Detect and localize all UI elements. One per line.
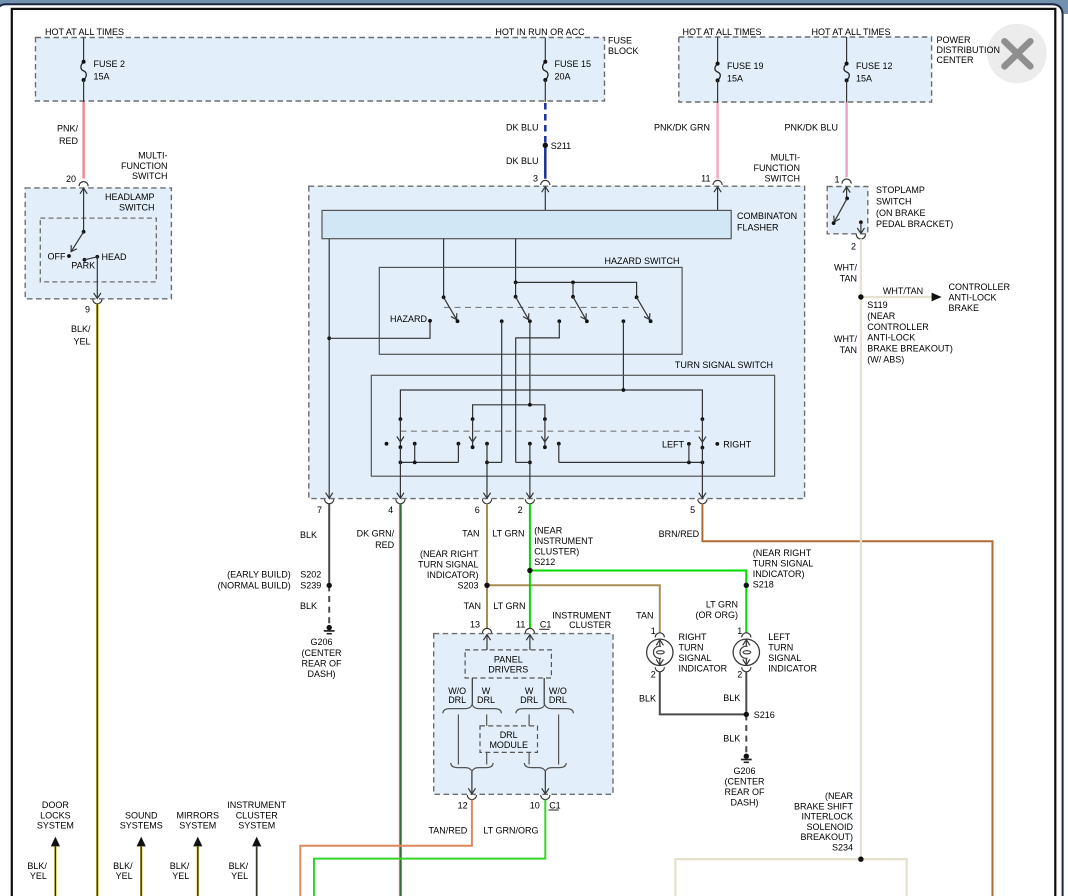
svg-text:LEFT: LEFT xyxy=(768,632,791,642)
wire WHT/TAN S234 branches xyxy=(675,859,906,896)
svg-text:DRL: DRL xyxy=(500,730,518,740)
wire PNK/RED fuse2 to headlamp switch pin 20 xyxy=(82,102,85,179)
svg-text:C1: C1 xyxy=(540,620,552,630)
svg-text:TURN SIGNAL SWITCH: TURN SIGNAL SWITCH xyxy=(675,360,773,370)
svg-text:13: 13 xyxy=(470,620,480,630)
headlamp switch inner dashed box xyxy=(40,218,156,282)
wire left bottom bus xyxy=(400,461,458,463)
connector at pin 3 xyxy=(541,180,550,185)
svg-text:LT GRN: LT GRN xyxy=(493,601,525,611)
wire fuse2 to box bottom xyxy=(83,80,85,103)
brace lower left xyxy=(451,763,494,772)
svg-text:SIGNAL: SIGNAL xyxy=(679,653,712,663)
svg-text:SWITCH: SWITCH xyxy=(119,202,155,212)
close button X xyxy=(1005,41,1031,66)
svg-text:DRL: DRL xyxy=(549,695,567,705)
wire sw2 blade down to TS bus2 xyxy=(529,321,531,405)
svg-text:DRIVERS: DRIVERS xyxy=(488,665,528,675)
wire drl module left down xyxy=(486,752,488,764)
wire W/O DRL left down xyxy=(457,714,459,764)
svg-text:SYSTEM: SYSTEM xyxy=(238,821,275,831)
hazard bus wire xyxy=(516,282,637,297)
wire TAN S203 to right indicator xyxy=(487,585,660,633)
svg-text:SYSTEM: SYSTEM xyxy=(179,821,216,831)
wire BLK dashed to ground (indicators) xyxy=(745,714,747,754)
svg-text:INDICATOR: INDICATOR xyxy=(768,663,817,673)
contact LEFT xyxy=(687,442,691,446)
svg-text:HAZARD: HAZARD xyxy=(390,314,428,324)
junction hazard feed xyxy=(327,336,331,340)
svg-text:PNK/: PNK/ xyxy=(57,123,79,133)
svg-text:PANEL: PANEL xyxy=(494,654,523,664)
contact mid2 to pin 2 xyxy=(528,442,532,446)
svg-text:FUNCTION: FUNCTION xyxy=(754,163,801,173)
contact left1 xyxy=(413,442,417,446)
svg-text:S119: S119 xyxy=(867,300,887,310)
connector at pin 11 xyxy=(713,180,722,185)
svg-text:C1: C1 xyxy=(549,800,561,810)
ground G206 (pin7) xyxy=(327,625,332,630)
svg-text:SIGNAL: SIGNAL xyxy=(768,653,801,663)
svg-text:TAN: TAN xyxy=(840,274,857,284)
connector cluster pin 11 xyxy=(525,628,534,633)
contact RIGHT xyxy=(715,442,719,446)
connector at pin 9 xyxy=(93,299,102,304)
svg-text:S234: S234 xyxy=(832,843,853,853)
wire to cluster pin 12 xyxy=(471,772,473,794)
connector at MFS pin 4 xyxy=(396,499,405,504)
fuse F12 15A xyxy=(844,64,849,81)
svg-text:2: 2 xyxy=(651,670,656,680)
hazard switch box xyxy=(379,267,682,354)
wire from contact B corner xyxy=(516,461,530,463)
svg-text:15A: 15A xyxy=(727,73,743,83)
wire pin3 into combination flasher xyxy=(544,187,546,211)
svg-text:BRAKE BREAKOUT): BRAKE BREAKOUT) xyxy=(867,344,953,354)
splice dots overlay xyxy=(543,143,548,148)
svg-text:5: 5 xyxy=(690,505,695,515)
wire panel drivers to left brace xyxy=(471,678,473,705)
svg-text:(NEAR RIGHT: (NEAR RIGHT xyxy=(753,548,812,558)
contact HAZARD xyxy=(428,319,432,323)
wire pin13 into panel drivers xyxy=(486,635,488,650)
wire W DRL right to drl module xyxy=(528,714,530,726)
wire panel drivers to right brace xyxy=(543,678,545,705)
hazard sw4 xyxy=(635,295,639,299)
svg-text:S218: S218 xyxy=(753,579,774,589)
svg-text:PNK/DK BLU: PNK/DK BLU xyxy=(784,123,838,133)
svg-text:STOPLAMP: STOPLAMP xyxy=(876,185,925,195)
wire LT GRN S212 down to cluster pin 11 xyxy=(529,571,531,629)
wire WHT/TAN S119 down to S234 xyxy=(860,297,862,859)
svg-text:S202: S202 xyxy=(300,569,321,579)
wire TAN/RED cluster pin12 down-left off page xyxy=(300,800,472,896)
svg-text:LT GRN: LT GRN xyxy=(706,600,738,610)
wire BLK left indicator to S216 xyxy=(745,672,747,715)
svg-text:LEFT: LEFT xyxy=(662,439,685,449)
svg-text:15A: 15A xyxy=(856,73,872,83)
svg-text:REAR OF: REAR OF xyxy=(724,787,765,797)
wire HEAD down to pin 9 xyxy=(96,257,98,299)
wire W/O DRL right down xyxy=(558,714,560,764)
svg-text:(NEAR: (NEAR xyxy=(825,791,854,801)
wire BRN/RED pin5 right and down xyxy=(702,504,992,896)
svg-text:MODULE: MODULE xyxy=(489,740,528,750)
svg-text:BLK: BLK xyxy=(300,530,317,540)
svg-text:3: 3 xyxy=(533,174,538,184)
svg-text:MULTI-: MULTI- xyxy=(138,151,167,161)
svg-text:1: 1 xyxy=(651,626,656,636)
stoplamp contact 2 xyxy=(859,220,863,224)
brace upper left xyxy=(443,705,502,714)
wire DK GRN/RED pin4 down off page xyxy=(398,504,400,896)
svg-text:(CENTER: (CENTER xyxy=(725,777,765,787)
stoplamp arrow and blade xyxy=(846,187,848,198)
svg-text:DK BLU: DK BLU xyxy=(506,156,539,166)
blade PARK to HEAD xyxy=(85,257,98,260)
svg-text:INDICATOR): INDICATOR) xyxy=(753,569,805,579)
arrow to controller xyxy=(932,293,942,302)
svg-text:FUSE 2: FUSE 2 xyxy=(94,59,126,69)
unused contact far left xyxy=(385,442,389,446)
connector at MFS pin 2 xyxy=(525,499,534,504)
splice S202/S239 xyxy=(327,583,332,588)
svg-text:LOCKS: LOCKS xyxy=(40,810,71,820)
svg-text:CLUSTER: CLUSTER xyxy=(236,810,279,820)
wire DK BLU dashed from fuse15 to S211 xyxy=(544,103,547,145)
multi-function switch (headlamp, dashed box) xyxy=(25,188,171,299)
svg-text:INSTRUMENT: INSTRUMENT xyxy=(534,536,593,546)
contact mid1 to pin 6 xyxy=(485,442,489,446)
connector cluster pin 12 xyxy=(467,795,476,800)
fuse block (dashed box) xyxy=(36,38,605,102)
svg-text:BLK/: BLK/ xyxy=(27,861,47,871)
svg-text:CONTROLLER: CONTROLLER xyxy=(867,322,929,332)
svg-text:BRAKE: BRAKE xyxy=(949,303,980,313)
svg-text:DRL: DRL xyxy=(477,695,495,705)
svg-text:TURN: TURN xyxy=(679,642,704,652)
svg-text:BLK: BLK xyxy=(639,693,656,703)
svg-text:(W/ ABS): (W/ ABS) xyxy=(867,355,904,365)
svg-text:INDICATOR: INDICATOR xyxy=(679,663,728,673)
wire drl module right down xyxy=(528,752,530,764)
svg-text:PNK/DK GRN: PNK/DK GRN xyxy=(654,123,710,133)
svg-text:INDICATOR): INDICATOR) xyxy=(427,570,479,580)
svg-text:TAN: TAN xyxy=(464,601,481,611)
svg-text:20A: 20A xyxy=(555,72,571,82)
wire fuse12 to box bottom xyxy=(846,80,848,102)
svg-text:DRL: DRL xyxy=(448,695,466,705)
fuse F2 15A xyxy=(81,62,86,80)
svg-text:(NEAR: (NEAR xyxy=(867,311,896,321)
wire pin11 into panel drivers xyxy=(529,635,531,650)
svg-text:DK GRN/: DK GRN/ xyxy=(357,528,395,538)
splice S203 xyxy=(485,583,490,588)
wire pin5 down xyxy=(701,448,703,499)
svg-text:WHT/TAN: WHT/TAN xyxy=(883,286,923,296)
svg-text:COMBINATON: COMBINATON xyxy=(737,211,797,221)
svg-text:MIRRORS: MIRRORS xyxy=(177,810,220,820)
svg-text:DRL: DRL xyxy=(520,695,538,705)
svg-text:DOOR: DOOR xyxy=(42,800,70,810)
svg-text:OFF: OFF xyxy=(48,251,66,261)
svg-text:G206: G206 xyxy=(733,766,755,776)
connector at stoplamp pin 1 xyxy=(842,179,851,184)
wire TAN pin6 to S203 xyxy=(486,504,488,586)
svg-text:BLOCK: BLOCK xyxy=(608,46,639,56)
svg-text:LT GRN/ORG: LT GRN/ORG xyxy=(483,825,538,835)
brace upper right xyxy=(516,705,574,714)
wire fuse19 feed xyxy=(717,37,719,64)
svg-text:MULTI-: MULTI- xyxy=(771,153,800,163)
svg-text:SYSTEM: SYSTEM xyxy=(37,821,74,831)
wire to cluster pin 10 xyxy=(544,772,546,794)
svg-text:INSTRUMENT: INSTRUMENT xyxy=(552,610,611,620)
svg-text:DK BLU: DK BLU xyxy=(506,123,539,133)
contact A xyxy=(500,319,504,323)
splice S212 xyxy=(528,568,533,573)
combination flasher box xyxy=(322,210,731,238)
splice S211 xyxy=(543,143,548,148)
hazard bus stubs to sw2 sw3 xyxy=(515,282,517,296)
svg-text:INTERLOCK: INTERLOCK xyxy=(801,812,853,822)
svg-text:HEAD: HEAD xyxy=(102,252,128,262)
svg-text:BRN/RED: BRN/RED xyxy=(659,529,700,539)
wire fuse15 to box bottom xyxy=(544,80,546,102)
wire hazard contact branch xyxy=(329,321,430,339)
svg-text:(NEAR: (NEAR xyxy=(534,526,563,536)
TS mechanical linkage (dashed) xyxy=(400,430,702,432)
svg-text:2: 2 xyxy=(737,670,742,680)
svg-text:4: 4 xyxy=(388,505,393,515)
contact C xyxy=(622,319,626,323)
svg-text:CONTROLLER: CONTROLLER xyxy=(949,282,1011,292)
close button circle xyxy=(987,24,1047,84)
svg-text:(CENTER: (CENTER xyxy=(302,648,342,658)
svg-text:SWITCH: SWITCH xyxy=(876,197,912,207)
svg-text:RIGHT: RIGHT xyxy=(723,439,752,449)
svg-text:BLK: BLK xyxy=(300,601,317,611)
svg-text:WHT/: WHT/ xyxy=(834,263,857,273)
wire flasher to hazard bus xyxy=(515,239,517,283)
wire fuse2 feed xyxy=(83,38,85,62)
wire BLK right indicator to S216 xyxy=(660,672,747,715)
svg-text:POWER: POWER xyxy=(937,35,972,45)
svg-text:S212: S212 xyxy=(534,557,555,567)
wire LT GRN S212 to S218 xyxy=(530,571,746,586)
svg-text:BLK/: BLK/ xyxy=(229,861,249,871)
wire fuse12 feed xyxy=(846,37,848,64)
contact left2 xyxy=(457,442,461,446)
wire PNK/DK GRN fuse19 to pin 11 xyxy=(716,103,719,179)
ground G206 (indicators) xyxy=(744,754,749,759)
wire flasher to pin 7 (left vertical) xyxy=(328,239,330,499)
wire contact A down xyxy=(501,321,503,462)
connector cluster pin 13 xyxy=(482,628,491,633)
svg-text:BLK/: BLK/ xyxy=(113,861,133,871)
svg-text:REAR OF: REAR OF xyxy=(301,658,342,668)
svg-text:S216: S216 xyxy=(754,710,775,720)
lamp RIGHT TURN SIGNAL INDICATOR xyxy=(647,639,673,665)
connector at MFS pin 7 xyxy=(325,499,334,504)
TS wiper right-mid xyxy=(543,417,547,421)
drl module dashed box xyxy=(480,726,538,753)
connector at stoplamp pin 2 xyxy=(856,234,865,239)
svg-text:FUSE 12: FUSE 12 xyxy=(856,61,893,71)
svg-text:(EARLY BUILD): (EARLY BUILD) xyxy=(227,569,291,579)
connector right indicator pin 1 xyxy=(655,633,664,638)
wire TAN S203 down to cluster pin 13 xyxy=(486,585,488,628)
svg-text:ANTI-LOCK: ANTI-LOCK xyxy=(949,293,997,303)
svg-text:BLK: BLK xyxy=(723,734,740,744)
svg-text:BLK: BLK xyxy=(723,693,740,703)
hazard sw1 xyxy=(442,295,446,299)
svg-text:CLUSTER): CLUSTER) xyxy=(534,547,579,557)
panel drivers dashed box xyxy=(465,650,551,678)
svg-text:9: 9 xyxy=(85,305,90,315)
svg-text:(NORMAL BUILD): (NORMAL BUILD) xyxy=(218,581,291,591)
svg-text:RED: RED xyxy=(59,136,79,146)
fuse F15 20A xyxy=(543,62,548,80)
splice S119 xyxy=(859,295,864,300)
wire LT GRN S218 to left indicator xyxy=(745,585,747,633)
svg-text:BLK/: BLK/ xyxy=(170,861,190,871)
connector at pin 20 xyxy=(79,182,88,187)
svg-text:DASH): DASH) xyxy=(307,669,335,679)
splice S216 xyxy=(744,712,749,717)
svg-text:HOT IN RUN OR ACC: HOT IN RUN OR ACC xyxy=(495,27,585,37)
svg-text:G206: G206 xyxy=(310,637,332,647)
wire contact C down to TS bus1 xyxy=(622,321,624,390)
svg-text:11: 11 xyxy=(701,174,710,184)
svg-text:HOT AT ALL TIMES: HOT AT ALL TIMES xyxy=(682,27,761,37)
svg-text:1: 1 xyxy=(737,626,742,636)
svg-text:FUSE 15: FUSE 15 xyxy=(555,59,592,69)
contact B xyxy=(557,319,561,323)
svg-text:10: 10 xyxy=(530,800,540,810)
wire WHT/TAN stoplamp to S119 xyxy=(860,239,862,297)
svg-text:(NEAR RIGHT: (NEAR RIGHT xyxy=(420,549,479,559)
TS wiper pin4 xyxy=(399,417,403,421)
contact HEAD xyxy=(95,255,99,259)
svg-text:2: 2 xyxy=(518,505,523,515)
svg-text:SOUND: SOUND xyxy=(125,810,158,820)
connector right indicator pin 2 xyxy=(655,667,664,672)
svg-text:BLK/: BLK/ xyxy=(71,324,91,334)
wire BLK pin7 to S202 xyxy=(328,504,330,586)
svg-text:FUNCTION: FUNCTION xyxy=(121,161,168,171)
svg-text:INSTRUMENT: INSTRUMENT xyxy=(227,800,286,810)
svg-text:(ON BRAKE: (ON BRAKE xyxy=(876,208,926,218)
svg-text:CLUSTER: CLUSTER xyxy=(569,620,612,630)
wire BLK dashed to ground xyxy=(328,585,330,625)
svg-text:1: 1 xyxy=(834,174,839,184)
svg-text:15A: 15A xyxy=(94,72,110,82)
wire W DRL left to drl module xyxy=(486,714,488,726)
TS bus2 wire xyxy=(473,405,545,419)
svg-text:SYSTEMS: SYSTEMS xyxy=(120,821,163,831)
svg-text:S239: S239 xyxy=(300,581,321,591)
wire long bottom bus to LEFT xyxy=(559,461,703,463)
wire BLK/YEL pin 9 down off page xyxy=(96,304,99,896)
contact OFF xyxy=(67,254,71,258)
splice S234 xyxy=(859,857,864,862)
splice S218 xyxy=(744,583,749,588)
svg-text:BREAKOUT): BREAKOUT) xyxy=(800,832,853,842)
svg-text:CENTER: CENTER xyxy=(937,55,975,65)
instrument cluster dashed box xyxy=(434,634,613,795)
turn signal switch box xyxy=(371,375,774,476)
svg-text:ANTI-LOCK: ANTI-LOCK xyxy=(867,333,915,343)
svg-text:LT GRN: LT GRN xyxy=(492,529,524,539)
svg-text:(OR ORG): (OR ORG) xyxy=(696,610,739,620)
TS wiper pin5 xyxy=(701,417,705,421)
headlamp switch blade to OFF xyxy=(71,232,84,252)
power distribution center (dashed box) xyxy=(679,37,932,102)
svg-text:7: 7 xyxy=(317,505,322,515)
multi-function switch main dashed box xyxy=(309,186,805,498)
wire pin20 arrow to pivot xyxy=(83,188,85,232)
connector at MFS pin 5 xyxy=(698,499,707,504)
wire from contact A corner xyxy=(487,461,502,463)
svg-text:12: 12 xyxy=(458,800,468,810)
svg-text:WHT/: WHT/ xyxy=(834,334,857,344)
svg-text:TAN: TAN xyxy=(462,529,479,539)
svg-text:FUSE: FUSE xyxy=(608,35,632,45)
connector at MFS pin 6 xyxy=(482,499,491,504)
svg-text:DISTRIBUTION: DISTRIBUTION xyxy=(937,45,1001,55)
stoplamp switch dashed box xyxy=(827,187,868,234)
hazard sw2 xyxy=(514,295,518,299)
wire PNK/DK BLU fuse12 to stoplamp pin 1 xyxy=(845,103,848,178)
svg-text:SWITCH: SWITCH xyxy=(132,171,168,181)
svg-text:DASH): DASH) xyxy=(730,797,758,807)
svg-text:SWITCH: SWITCH xyxy=(765,173,801,183)
svg-text:HOT AT ALL TIMES: HOT AT ALL TIMES xyxy=(811,27,890,37)
window background blue strip xyxy=(0,0,1068,14)
svg-text:2: 2 xyxy=(851,241,856,251)
headlamp switch pivot xyxy=(82,230,86,234)
wire contact B down-left-down xyxy=(516,321,560,462)
svg-text:SOLENOID: SOLENOID xyxy=(806,822,853,832)
connector left indicator pin 1 xyxy=(742,633,751,638)
svg-text:FUSE 19: FUSE 19 xyxy=(727,61,764,71)
svg-text:YEL: YEL xyxy=(231,871,248,881)
svg-text:YEL: YEL xyxy=(73,336,90,346)
wire pin11 into combination flasher xyxy=(717,187,719,211)
svg-text:TURN SIGNAL: TURN SIGNAL xyxy=(753,559,814,569)
svg-text:RIGHT: RIGHT xyxy=(679,632,708,642)
hazard sw3 xyxy=(571,295,575,299)
svg-text:HOT AT ALL TIMES: HOT AT ALL TIMES xyxy=(45,27,124,37)
fuse F19 15A xyxy=(715,64,720,81)
hazard mechanical linkage (dashed) xyxy=(444,306,642,308)
wire flasher to hazard sw1 xyxy=(443,239,445,298)
svg-text:20: 20 xyxy=(66,174,76,184)
svg-text:HAZARD SWITCH: HAZARD SWITCH xyxy=(605,256,680,266)
svg-text:RED: RED xyxy=(375,540,395,550)
svg-text:YEL: YEL xyxy=(30,871,47,881)
wire pin4 down xyxy=(399,447,401,498)
connector cluster pin 10 xyxy=(541,795,550,800)
svg-text:TAN: TAN xyxy=(636,610,653,620)
svg-text:HEADLAMP: HEADLAMP xyxy=(105,192,155,202)
wire LT GRN pin2 to S212 xyxy=(529,504,531,571)
svg-text:11: 11 xyxy=(516,620,525,630)
lamp LEFT TURN SIGNAL INDICATOR xyxy=(733,639,759,665)
contact mid3 xyxy=(557,442,561,446)
svg-text:TAN/RED: TAN/RED xyxy=(428,825,467,835)
